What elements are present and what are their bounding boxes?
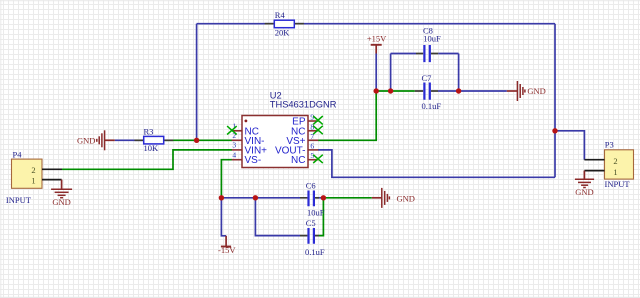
wire C8 branch left vertical bbox=[390, 54, 392, 92]
wire C6 row right to GND green bbox=[323, 197, 371, 199]
wire node A to U2 pin 2 bbox=[197, 139, 232, 141]
wire C6 right lead blue bbox=[316, 197, 323, 199]
svg-text:1: 1 bbox=[31, 176, 35, 186]
junction node A (R3/R4/pin2) bbox=[194, 138, 199, 143]
ground left of R3 bbox=[77, 130, 115, 150]
svg-text:GND: GND bbox=[527, 86, 545, 96]
wire output to P3 pin 2 bbox=[555, 131, 584, 160]
capacitor C5 bbox=[300, 218, 325, 257]
op-amp U2 THS4631DGNR bbox=[242, 90, 337, 167]
connector P4 bbox=[6, 149, 42, 205]
wire C7 row right blue bbox=[438, 90, 507, 92]
U2 pin 6 bbox=[275, 141, 318, 156]
svg-text:C6: C6 bbox=[306, 181, 316, 191]
svg-text:2: 2 bbox=[613, 156, 617, 166]
wire right feedback vertical bbox=[554, 24, 556, 178]
ground right of C6 bbox=[372, 188, 415, 208]
junction node C6 right bbox=[321, 195, 326, 200]
capacitor C8 bbox=[416, 25, 441, 62]
wire node to -15V bbox=[221, 198, 226, 236]
wire C5 branch bbox=[255, 198, 300, 236]
svg-text:GND: GND bbox=[77, 135, 95, 145]
svg-text:C5: C5 bbox=[306, 218, 316, 228]
wire C6 row left blue bbox=[221, 197, 300, 199]
wire U2 pin 6 VOUT- bbox=[318, 150, 555, 177]
no-connect X pin 5 bbox=[313, 155, 323, 163]
junction node +15V rail bbox=[374, 88, 379, 93]
svg-text:GND: GND bbox=[397, 194, 415, 204]
power +15V bbox=[367, 34, 387, 54]
svg-text:P4: P4 bbox=[13, 149, 23, 159]
svg-text:10K: 10K bbox=[144, 143, 160, 153]
svg-text:THS4631DGNR: THS4631DGNR bbox=[270, 100, 337, 110]
capacitor C7 bbox=[415, 73, 442, 111]
capacitor C6 bbox=[300, 181, 325, 218]
svg-text:10uF: 10uF bbox=[307, 207, 325, 217]
resistor R4 bbox=[265, 10, 304, 38]
junction node C8 left bbox=[388, 88, 393, 93]
svg-text:NC: NC bbox=[291, 155, 305, 166]
ground below P4 bbox=[51, 180, 72, 208]
U2 pin 5 bbox=[291, 151, 318, 166]
P3 pin 2 lead bbox=[584, 159, 604, 161]
U2 pin 7 bbox=[286, 132, 318, 147]
wire top feedback horizontal bbox=[197, 23, 555, 25]
P4 pin 1 lead bbox=[42, 179, 62, 181]
svg-text:10uF: 10uF bbox=[423, 33, 441, 43]
power -15V bbox=[218, 236, 236, 255]
ground right of C7 bbox=[507, 81, 546, 101]
U2 pin 3 bbox=[232, 141, 267, 157]
ground below P3 bbox=[575, 171, 594, 197]
resistor R3 bbox=[135, 127, 174, 153]
svg-text:-15V: -15V bbox=[218, 245, 236, 255]
P4 pin 2 lead bbox=[42, 168, 62, 170]
junction node C8 right bbox=[456, 88, 461, 93]
junction node C5 branch bbox=[253, 195, 258, 200]
U2 pin 8 bbox=[291, 122, 318, 137]
svg-text:P3: P3 bbox=[605, 140, 614, 150]
svg-text:GND: GND bbox=[52, 197, 70, 207]
wire C5 right green up bbox=[319, 198, 324, 236]
wire GND to R3 bbox=[115, 139, 144, 141]
svg-text:6: 6 bbox=[310, 141, 314, 150]
connector P3 bbox=[605, 140, 634, 189]
svg-text:R3: R3 bbox=[144, 127, 154, 137]
wire left feedback vertical bbox=[196, 24, 198, 141]
svg-text:VS-: VS- bbox=[245, 155, 262, 166]
wire U2 pin 7 to +15V node bbox=[318, 91, 376, 140]
no-connect X pin 9 bbox=[313, 116, 323, 124]
svg-text:INPUT: INPUT bbox=[6, 195, 32, 205]
wire U2 pin 4 to C6 node bbox=[221, 160, 232, 198]
P3 pin 1 lead bbox=[584, 170, 604, 172]
svg-text:0.1uF: 0.1uF bbox=[305, 247, 325, 257]
junction node output bbox=[552, 128, 557, 133]
U2 pin 4 bbox=[232, 151, 261, 167]
svg-text:+15V: +15V bbox=[367, 34, 387, 44]
svg-text:20K: 20K bbox=[275, 28, 291, 38]
svg-text:R4: R4 bbox=[275, 10, 286, 20]
svg-text:GND: GND bbox=[575, 187, 593, 197]
svg-text:1: 1 bbox=[613, 167, 617, 177]
wire R3 to node A bbox=[164, 139, 197, 141]
svg-text:3: 3 bbox=[232, 141, 236, 150]
svg-text:4: 4 bbox=[232, 151, 236, 160]
wire +15V lead bbox=[375, 54, 377, 92]
wire P4 pin 2 to U2 pin 3 bbox=[62, 150, 232, 169]
U2 pin 2 bbox=[232, 131, 265, 147]
no-connect X pin 8 bbox=[313, 126, 323, 134]
svg-text:C7: C7 bbox=[422, 73, 432, 83]
junction node VS- rail bbox=[219, 195, 224, 200]
wire C8 row bbox=[391, 53, 459, 55]
wire C7 row left green bbox=[376, 90, 415, 92]
svg-text:0.1uF: 0.1uF bbox=[422, 101, 442, 111]
svg-text:2: 2 bbox=[31, 165, 35, 175]
U2 pin 9 bbox=[292, 113, 318, 128]
svg-text:INPUT: INPUT bbox=[605, 179, 631, 189]
no-connect X pin 1 bbox=[227, 126, 237, 134]
wire C8 branch right vertical bbox=[458, 54, 460, 92]
U2 pin 1 bbox=[232, 122, 259, 138]
